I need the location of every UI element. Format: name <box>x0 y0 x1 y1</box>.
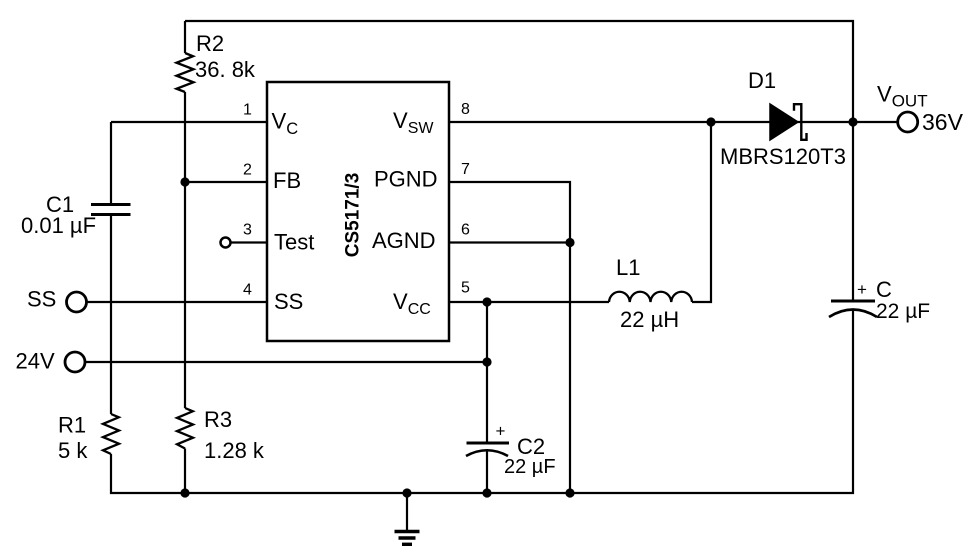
node VCC junction <box>482 297 491 306</box>
diode D1 schottky cathode bar <box>794 104 807 140</box>
svg-text:22 µF: 22 µF <box>504 456 556 478</box>
svg-text:22 µH: 22 µH <box>620 307 679 332</box>
svg-text:R3: R3 <box>204 407 232 432</box>
wire left rail upper (VC to C1) <box>110 122 112 205</box>
terminal SS <box>67 292 87 312</box>
svg-text:7: 7 <box>461 161 470 178</box>
node C2 bottom junction <box>482 488 491 497</box>
svg-text:0.01 µF: 0.01 µF <box>21 213 96 238</box>
capacitor C2 plates <box>467 442 510 445</box>
wire L1 right to VSW node <box>692 122 711 302</box>
terminal 24V <box>65 352 85 372</box>
node VSW/diode/L1 junction <box>706 117 715 126</box>
capacitor C1 plates <box>91 205 131 215</box>
node PGND bottom junction <box>565 488 574 497</box>
svg-text:SS: SS <box>274 289 303 314</box>
inductor L1 <box>609 292 692 302</box>
wire top rail from R2 top to right rail <box>185 21 853 301</box>
wire C2 vertical <box>486 302 488 493</box>
capacitor C plates (output) <box>831 300 875 303</box>
svg-text:6: 6 <box>461 222 470 239</box>
svg-text:24V: 24V <box>16 349 55 374</box>
wire pin2 FB <box>185 181 267 183</box>
node 24V/C2 junction <box>482 357 491 366</box>
svg-text:8: 8 <box>461 101 470 118</box>
node AGND junction <box>565 238 574 247</box>
svg-text:22 µF: 22 µF <box>876 300 930 323</box>
wire pin4 SS <box>88 301 268 303</box>
wire left rail middle (C1 to R1) <box>110 215 112 415</box>
wire pin7 PGND <box>449 182 570 493</box>
svg-text:R2: R2 <box>196 31 224 56</box>
svg-text:5: 5 <box>461 280 470 297</box>
node R3 bottom junction <box>180 488 189 497</box>
svg-text:FB: FB <box>273 168 301 193</box>
resistor R3 <box>177 408 193 449</box>
resistor R2 <box>177 53 194 92</box>
svg-text:MBRS120T3: MBRS120T3 <box>720 144 846 169</box>
svg-text:D1: D1 <box>748 68 776 93</box>
wire pin3 Test <box>232 241 268 243</box>
diode D1 triangle <box>770 104 798 140</box>
svg-text:PGND: PGND <box>374 167 438 192</box>
wire pin6 AGND <box>449 241 570 243</box>
svg-text:1: 1 <box>243 102 252 119</box>
wire pin8 VSW to VOUT <box>449 121 897 123</box>
svg-text:36. 8k: 36. 8k <box>195 57 256 82</box>
svg-text:Test: Test <box>274 230 314 255</box>
svg-text:CS5171/3: CS5171/3 <box>343 173 364 258</box>
ground <box>395 493 420 544</box>
wire 24V input <box>86 361 488 363</box>
svg-text:+: + <box>857 280 867 299</box>
svg-text:L1: L1 <box>616 255 640 280</box>
node FB junction <box>180 177 189 186</box>
IC U1 CS5171/3 box <box>267 82 449 341</box>
svg-text:36V: 36V <box>922 109 964 135</box>
svg-text:+: + <box>496 422 506 441</box>
terminal pin3 Test open circle <box>221 238 231 248</box>
wire R2/R3 vertical rail <box>184 21 186 493</box>
node ground junction <box>402 488 411 497</box>
svg-text:SS: SS <box>27 287 56 312</box>
terminal VOUT <box>898 112 918 132</box>
svg-text:2: 2 <box>243 162 252 179</box>
svg-text:C: C <box>876 277 892 302</box>
svg-text:1.28 k: 1.28 k <box>204 438 265 463</box>
node VOUT junction <box>848 117 857 126</box>
svg-text:AGND: AGND <box>372 228 436 253</box>
svg-text:R1: R1 <box>58 413 86 438</box>
svg-text:4: 4 <box>243 282 252 299</box>
resistor R1 <box>103 414 119 454</box>
wire pin1 VC <box>111 121 267 123</box>
wire pin5 VCC to L1 <box>449 301 609 303</box>
wire right rail lower and bottom rail <box>111 310 853 494</box>
svg-text:3: 3 <box>243 222 252 239</box>
svg-text:5 k: 5 k <box>58 438 88 463</box>
